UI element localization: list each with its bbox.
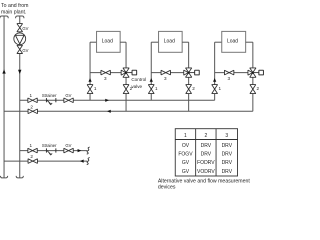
valve 1 circuit 1 bbox=[87, 85, 97, 94]
svg-text:2: 2 bbox=[30, 104, 33, 109]
svg-text:GV: GV bbox=[182, 160, 190, 166]
text label: To and from main plant bbox=[1, 3, 28, 16]
control valve circuit 3 bbox=[248, 68, 263, 77]
flow arrow up on return pipe bbox=[2, 69, 5, 73]
wire: circuit 2 left riser bbox=[151, 42, 158, 100]
valve 3 circuit 3 bbox=[224, 70, 233, 81]
wire: lower return branch bbox=[4, 160, 87, 162]
svg-text:3: 3 bbox=[227, 76, 230, 81]
svg-text:1: 1 bbox=[155, 86, 158, 91]
text caption: table bbox=[158, 178, 251, 190]
svg-text:Load: Load bbox=[164, 39, 175, 45]
svg-text:GV: GV bbox=[22, 26, 28, 31]
load box circuit 2 bbox=[159, 31, 183, 52]
svg-text:2: 2 bbox=[256, 86, 259, 91]
text label: Control valve bbox=[131, 77, 146, 89]
svg-text:DRV: DRV bbox=[222, 143, 233, 149]
flow arrow left on return header bbox=[107, 110, 111, 113]
valve GV on lower supply branch bbox=[64, 143, 73, 153]
valve GV lower on supply pipe bbox=[17, 45, 29, 53]
wire: return header bbox=[4, 110, 253, 112]
pipe continuation symbol top right bbox=[16, 16, 24, 18]
svg-text:3: 3 bbox=[164, 76, 167, 81]
wire: supply header bbox=[20, 99, 215, 101]
valve 3 circuit 2 bbox=[161, 70, 170, 81]
svg-text:DRV: DRV bbox=[201, 143, 212, 149]
svg-text:2: 2 bbox=[192, 86, 195, 91]
control valve circuit 2 bbox=[184, 68, 200, 77]
svg-text:Strainer: Strainer bbox=[42, 143, 57, 148]
svg-text:DRV: DRV bbox=[201, 152, 212, 158]
wire: circuit 2 right riser bbox=[182, 42, 189, 111]
valve 3 circuit 1 bbox=[101, 70, 110, 81]
legend table: alternative valves bbox=[175, 129, 237, 176]
wire: circuit 1 left riser bbox=[90, 42, 97, 100]
wire: lower supply branch bbox=[20, 150, 87, 152]
wire: supply pipe lower segment bbox=[19, 54, 21, 178]
flow arrow up circuit 3 riser bbox=[213, 78, 216, 82]
pump / flow measurement device bbox=[14, 33, 26, 45]
svg-text:valve: valve bbox=[131, 84, 142, 89]
pipe break symbol on lower return branch bbox=[87, 158, 90, 165]
valve GV upper on supply pipe bbox=[17, 24, 29, 32]
wire: circuit 3 bypass line bbox=[215, 72, 249, 74]
valve GV on supply header bbox=[64, 93, 73, 103]
svg-text:GV: GV bbox=[65, 143, 71, 148]
valve 1 on lower supply branch bbox=[28, 143, 37, 153]
svg-text:1: 1 bbox=[184, 133, 187, 139]
wire: supply pipe valve-pump segment bbox=[19, 32, 21, 33]
svg-text:Control: Control bbox=[131, 77, 146, 82]
strainer on supply header bbox=[42, 93, 57, 105]
pipe continuation symbol top left bbox=[0, 16, 8, 18]
valve 2 on return header bbox=[28, 104, 37, 113]
svg-text:GV: GV bbox=[182, 169, 190, 175]
valve 2 circuit 1 bbox=[123, 85, 133, 94]
svg-text:3: 3 bbox=[225, 133, 228, 139]
wire: supply pipe from main plant top segment bbox=[19, 16, 21, 24]
valve 2 circuit 3 bbox=[250, 85, 259, 94]
svg-text:FODRV: FODRV bbox=[197, 160, 215, 166]
svg-text:3: 3 bbox=[104, 76, 107, 81]
svg-text:main plant.: main plant. bbox=[1, 10, 26, 16]
svg-text:Alternative valve and flow mea: Alternative valve and flow measurement bbox=[158, 178, 251, 184]
strainer on lower supply branch bbox=[42, 143, 57, 155]
flow arrow down on supply pipe bbox=[18, 70, 21, 74]
svg-text:2: 2 bbox=[30, 154, 33, 159]
flow arrow right on supply header bbox=[105, 99, 109, 102]
valve 1 circuit 2 bbox=[148, 85, 158, 94]
svg-text:2: 2 bbox=[130, 86, 133, 91]
wire: circuit 3 right riser bbox=[246, 42, 253, 111]
svg-text:GV: GV bbox=[22, 48, 28, 53]
svg-text:VODRV: VODRV bbox=[197, 169, 215, 175]
wire: return pipe to main plant (left vertical) bbox=[3, 16, 5, 178]
svg-text:OV: OV bbox=[182, 143, 190, 149]
svg-text:DRV: DRV bbox=[222, 169, 233, 175]
svg-text:1: 1 bbox=[30, 143, 33, 148]
wire: circuit 3 left riser bbox=[215, 42, 222, 100]
control valve circuit 1 bbox=[121, 68, 137, 77]
svg-text:DRV: DRV bbox=[222, 160, 233, 166]
load box circuit 1 bbox=[97, 31, 121, 52]
valve 1 circuit 3 bbox=[212, 85, 222, 94]
flow arrow up circuit 1 riser bbox=[88, 78, 91, 82]
svg-text:1: 1 bbox=[30, 93, 33, 98]
load box circuit 3 bbox=[222, 31, 246, 52]
svg-text:To and from: To and from bbox=[1, 3, 28, 9]
svg-text:1: 1 bbox=[218, 86, 221, 91]
pipe continuation symbol bottom right bbox=[16, 176, 23, 178]
flow arrow up circuit 2 riser bbox=[150, 78, 153, 82]
svg-text:DRV: DRV bbox=[222, 152, 233, 158]
svg-text:Load: Load bbox=[102, 39, 113, 45]
svg-text:1: 1 bbox=[94, 86, 97, 91]
svg-text:2: 2 bbox=[204, 133, 207, 139]
svg-text:GV: GV bbox=[65, 93, 71, 98]
wire: circuit 1 right riser bbox=[120, 42, 126, 111]
pipe continuation symbol bottom left bbox=[0, 176, 7, 178]
flow arrow left on lower return branch bbox=[80, 160, 84, 163]
valve 2 on lower return branch bbox=[28, 154, 37, 163]
wire: circuit 2 bypass line bbox=[151, 72, 184, 74]
valve 1 on supply header bbox=[28, 93, 37, 103]
wire: circuit 1 bypass line bbox=[90, 72, 122, 74]
svg-text:Strainer: Strainer bbox=[42, 93, 57, 98]
valve 2 circuit 2 bbox=[186, 85, 196, 94]
pipe break symbol on lower supply branch bbox=[87, 147, 90, 154]
svg-text:FOGV: FOGV bbox=[178, 152, 193, 158]
svg-text:devices: devices bbox=[158, 185, 176, 191]
flow arrow right on lower supply branch bbox=[78, 149, 82, 152]
svg-text:Load: Load bbox=[227, 39, 238, 45]
